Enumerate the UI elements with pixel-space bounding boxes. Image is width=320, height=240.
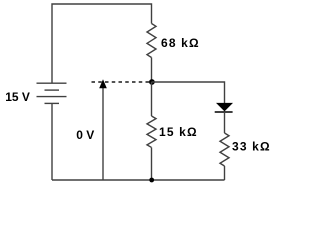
svg-text:33 kΩ: 33 kΩ — [232, 140, 271, 154]
arrow 0 V probe — [99, 79, 107, 180]
wire node to right branch — [152, 82, 225, 103]
wire 33k to bottom rail — [224, 166, 226, 180]
svg-text:15 kΩ: 15 kΩ — [159, 125, 198, 139]
diode D1 — [215, 103, 233, 112]
node junction middle — [149, 79, 155, 85]
dashed reference line — [92, 81, 150, 83]
wire node to 15k — [151, 82, 153, 116]
node junction bottom — [149, 178, 154, 183]
svg-text:15 V: 15 V — [5, 90, 30, 104]
wire diode to 33k — [224, 112, 226, 133]
svg-text:0 V: 0 V — [76, 128, 94, 142]
wire 68k to node — [151, 58, 153, 83]
wire 15k to bottom rail — [151, 148, 153, 181]
wire top rail — [52, 4, 152, 83]
svg-text:68 kΩ: 68 kΩ — [161, 36, 200, 50]
wire bottom rail — [52, 179, 225, 181]
resistor 68 kΩ — [147, 24, 156, 58]
resistor 15 kΩ — [147, 116, 156, 147]
resistor 33 kΩ — [220, 133, 229, 166]
battery 15 V — [37, 83, 67, 103]
wire left vertical bottom — [51, 103, 53, 180]
